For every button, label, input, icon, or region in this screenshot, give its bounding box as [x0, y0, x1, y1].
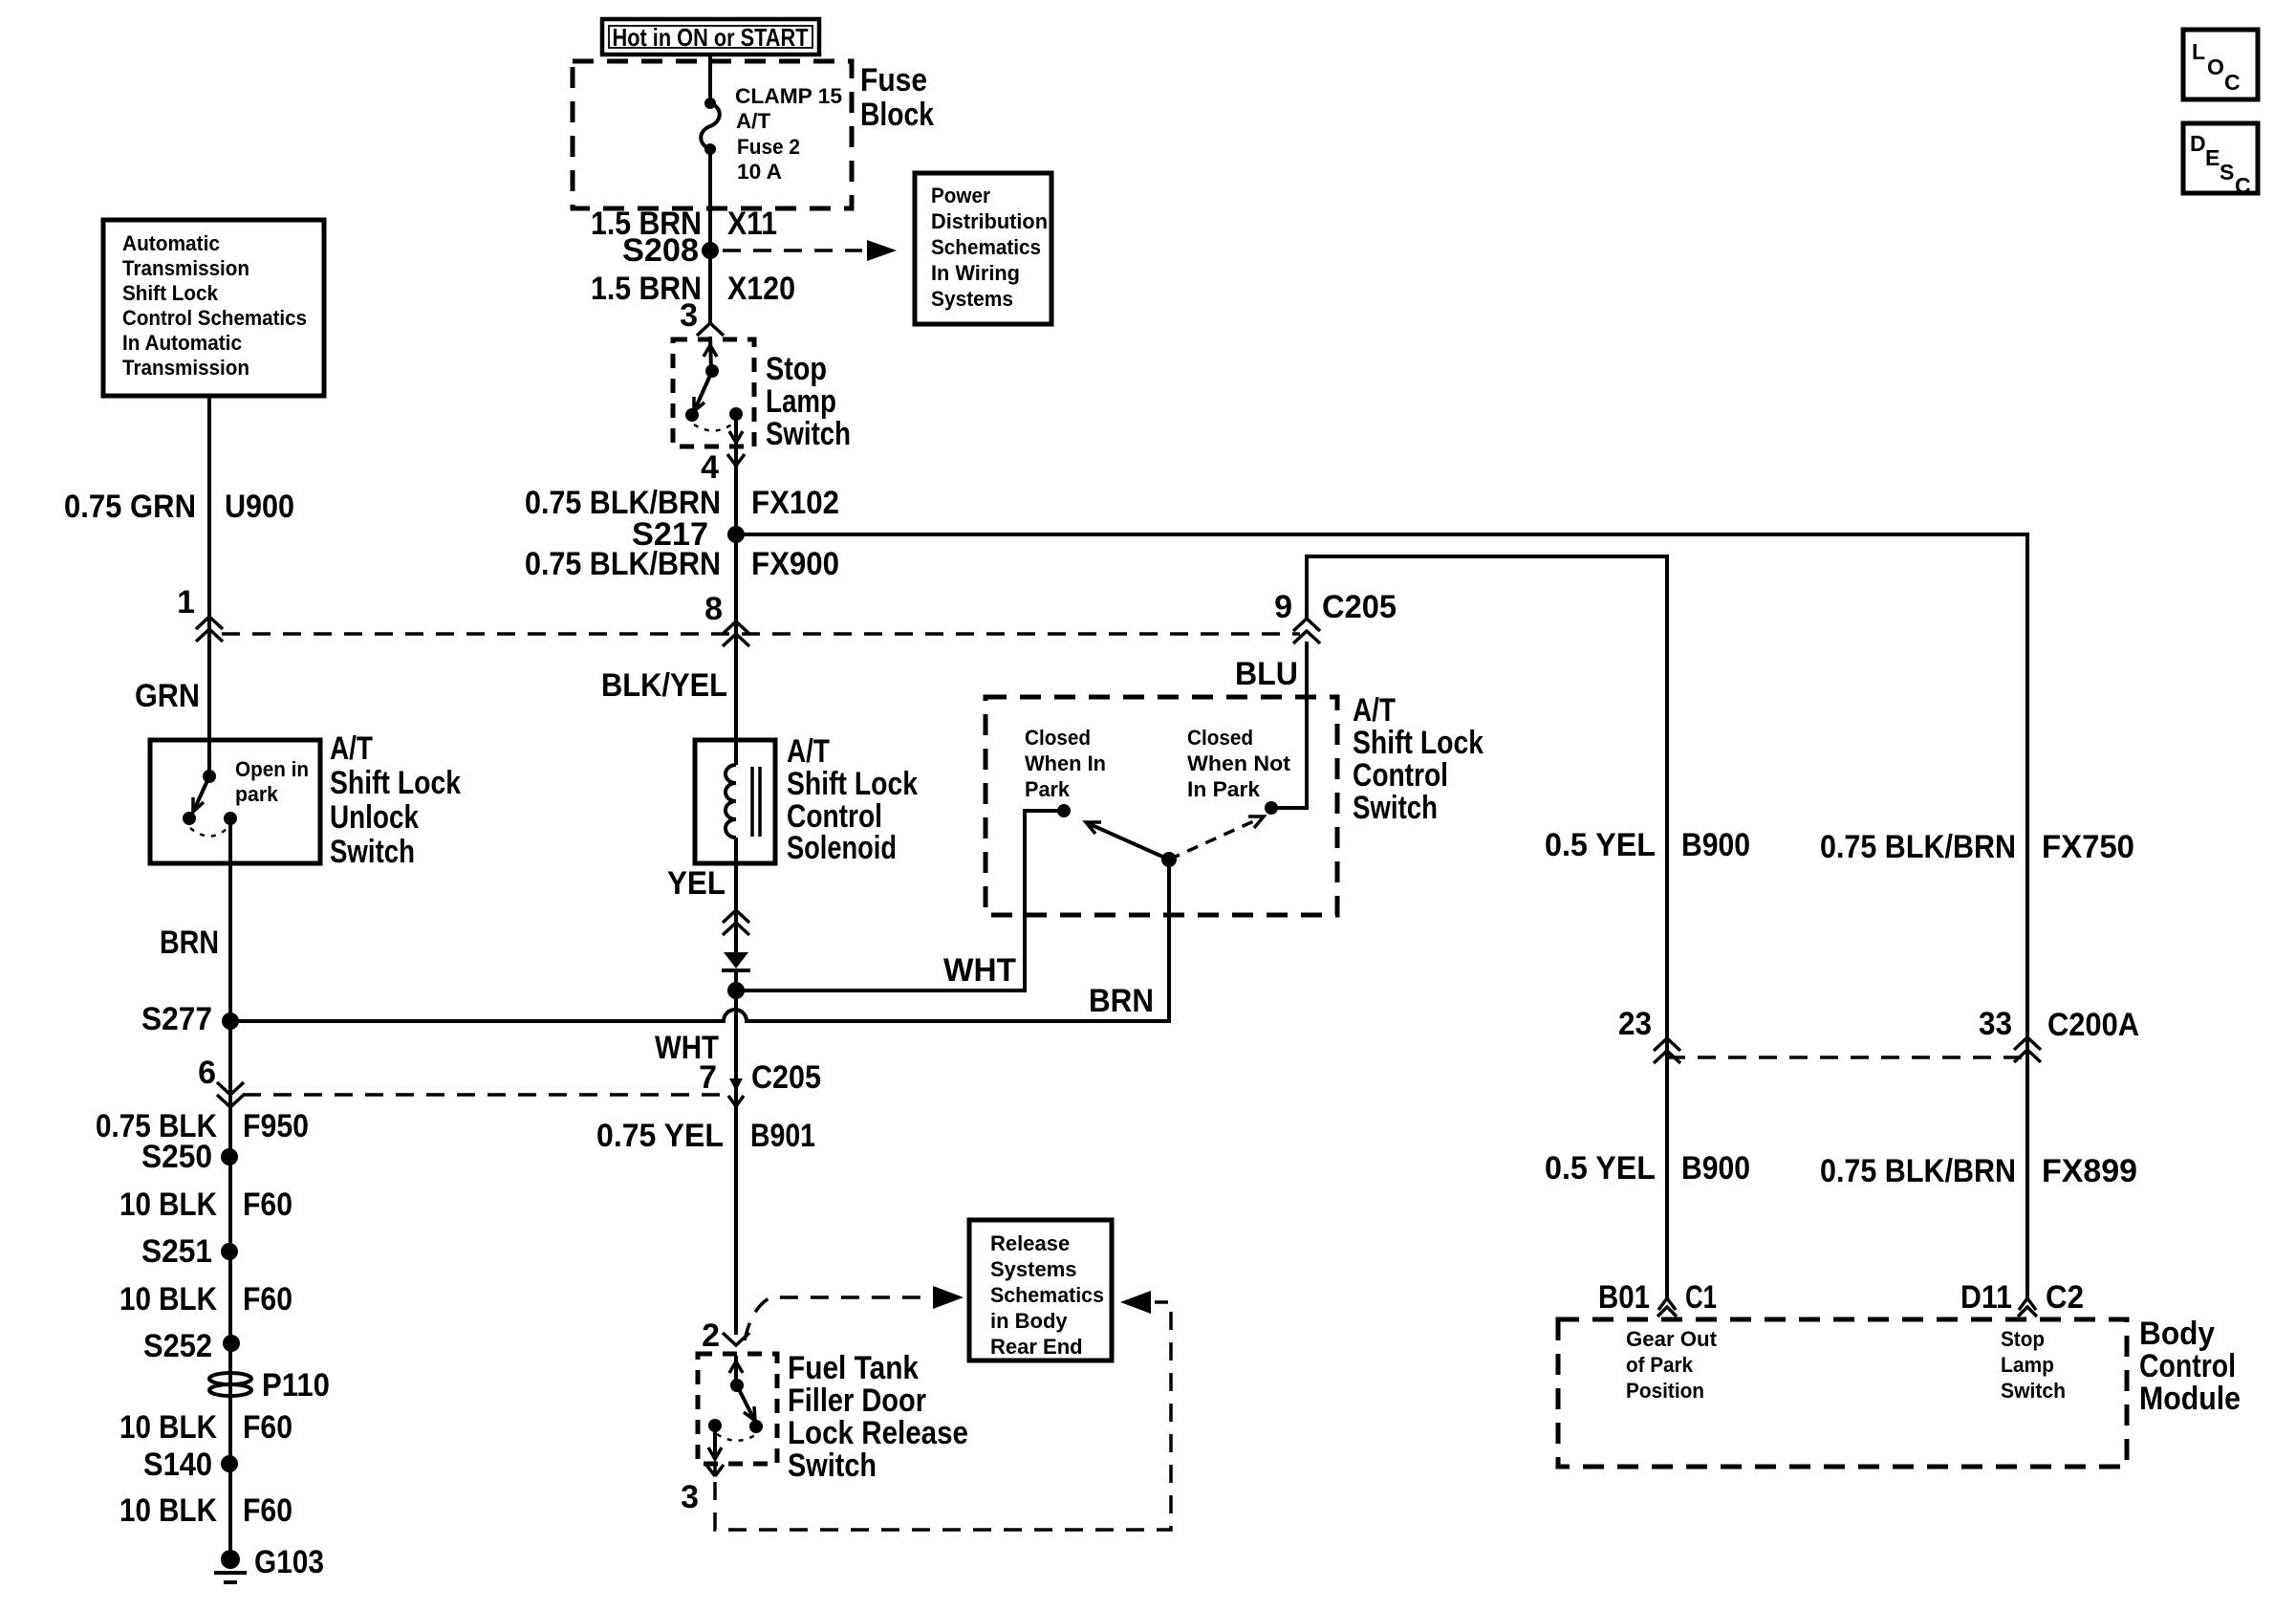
label Stop Lamp Switch (BCM input)	[2001, 1327, 2066, 1403]
svg-text:F60: F60	[243, 1492, 292, 1529]
svg-text:S251: S251	[141, 1233, 212, 1270]
splice S277	[141, 1001, 239, 1037]
svg-text:9: 9	[1274, 589, 1292, 625]
svg-text:C205: C205	[1322, 589, 1397, 625]
connector pin 2 (fuel door switch)	[702, 1317, 749, 1354]
svg-text:Module: Module	[2139, 1381, 2241, 1417]
svg-text:10 BLK: 10 BLK	[119, 1409, 217, 1446]
label Fuel Tank Filler Door Lock Release Switch	[788, 1350, 968, 1484]
label Fuse Block	[860, 62, 934, 133]
diode symbol	[722, 952, 750, 970]
svg-text:Closed: Closed	[1187, 726, 1253, 750]
connector C205 pin 8	[704, 591, 749, 646]
label 0.5 YEL B900 (upper)	[1545, 827, 1750, 863]
connector pin 4	[701, 449, 745, 486]
label A/T Shift Lock Control Switch	[1353, 692, 1484, 826]
label 0.75 BLK/BRN FX750	[1820, 829, 2134, 865]
svg-text:0.5 YEL: 0.5 YEL	[1545, 827, 1656, 863]
svg-text:O: O	[2207, 54, 2224, 79]
BCM connector pin D11 C2	[1960, 1279, 2084, 1317]
reference dashed arrow S208 to power distribution note	[723, 240, 897, 261]
svg-text:Shift Lock: Shift Lock	[330, 765, 461, 801]
svg-text:33: 33	[1979, 1006, 2012, 1042]
svg-text:10 BLK: 10 BLK	[119, 1492, 217, 1529]
connector pin 3 (fuel door switch)	[681, 1464, 724, 1515]
svg-text:10 BLK: 10 BLK	[119, 1186, 217, 1223]
svg-text:Transmission: Transmission	[122, 256, 249, 280]
svg-text:C2: C2	[2046, 1279, 2084, 1316]
svg-text:E: E	[2205, 145, 2220, 170]
svg-text:in Body: in Body	[990, 1309, 1068, 1333]
svg-text:B900: B900	[1681, 827, 1750, 863]
svg-text:BRN: BRN	[1089, 983, 1154, 1019]
fuel tank filler door lock release switch	[698, 1354, 777, 1464]
splice S208	[622, 232, 719, 269]
svg-text:3: 3	[681, 1479, 699, 1515]
svg-text:F60: F60	[243, 1186, 292, 1223]
connector C205 pin 7	[699, 1059, 821, 1106]
svg-text:Systems: Systems	[990, 1257, 1077, 1281]
fuse block dashed box	[573, 61, 852, 208]
grommet P110	[209, 1367, 330, 1404]
svg-text:Gear Out: Gear Out	[1626, 1327, 1718, 1351]
svg-text:C200A: C200A	[2047, 1007, 2139, 1043]
wire from Hot box into fuse	[708, 54, 712, 103]
svg-text:S252: S252	[143, 1328, 212, 1364]
svg-text:In Park: In Park	[1187, 777, 1261, 801]
svg-text:FX102: FX102	[751, 485, 839, 521]
svg-text:X120: X120	[727, 271, 795, 307]
svg-text:Filler Door: Filler Door	[788, 1382, 926, 1419]
label 10 BLK F60 (4)	[119, 1492, 292, 1529]
svg-text:Power: Power	[931, 184, 990, 207]
power feed box: Hot in ON or START	[602, 19, 819, 54]
svg-text:Body: Body	[2139, 1316, 2215, 1352]
svg-text:WHT: WHT	[943, 952, 1016, 989]
connector C205 dashed line (pins 1-8-9)	[222, 632, 1300, 636]
svg-text:GRN: GRN	[135, 678, 200, 714]
wire WHT to control switch	[736, 811, 1059, 991]
wire X120 1.5 BRN	[708, 250, 712, 323]
svg-text:0.75 YEL: 0.75 YEL	[596, 1118, 724, 1154]
note box: Release Systems Schematics in Body Rear End	[969, 1220, 1112, 1361]
label 0.75 GRN U900	[64, 489, 294, 525]
label 1.5 BRN X120	[591, 271, 795, 307]
splice S252	[143, 1328, 240, 1364]
svg-text:Release: Release	[990, 1231, 1070, 1255]
label 10 BLK F60	[119, 1186, 292, 1223]
BCM connector pin B01 C1	[1598, 1279, 1717, 1317]
svg-text:Solenoid: Solenoid	[787, 830, 897, 866]
label 10 BLK F60 (3)	[119, 1409, 292, 1446]
junction of diode WHT	[727, 970, 745, 999]
svg-text:C205: C205	[751, 1059, 821, 1096]
svg-text:D11: D11	[1960, 1279, 2012, 1316]
note box: Automatic Transmission Shift Lock Control Schematics In Automatic Transmission	[103, 220, 324, 396]
svg-text:FX899: FX899	[2042, 1153, 2137, 1189]
svg-text:Switch: Switch	[788, 1448, 877, 1484]
svg-text:In Wiring: In Wiring	[931, 261, 1020, 285]
svg-text:CLAMP 15: CLAMP 15	[735, 84, 842, 108]
svg-text:Switch: Switch	[1353, 790, 1438, 826]
wire FX102/FX900 0.75 BLK/BRN	[734, 446, 738, 740]
wire BRN (unlock switch to S277)	[228, 818, 232, 1021]
svg-text:F950: F950	[243, 1108, 309, 1144]
LOC reference box	[2183, 30, 2258, 99]
svg-text:Fuel Tank: Fuel Tank	[788, 1350, 919, 1386]
svg-text:of Park: of Park	[1626, 1353, 1694, 1377]
svg-text:7: 7	[699, 1059, 717, 1096]
svg-text:Open in: Open in	[235, 757, 309, 781]
svg-text:Lamp: Lamp	[2001, 1353, 2054, 1377]
svg-text:P110: P110	[262, 1367, 330, 1404]
reference dashed arrow to release systems note	[745, 1286, 964, 1340]
svg-text:Switch: Switch	[766, 416, 851, 452]
wire BLU/B900 to BCM (gear out of park)	[1307, 556, 1667, 1298]
wire BRN from S277 to control switch pivot	[230, 860, 1169, 1021]
svg-text:D: D	[2190, 131, 2206, 156]
control switch contacts and arms	[1025, 642, 1307, 867]
svg-text:Transmission: Transmission	[122, 356, 249, 380]
svg-text:Distribution: Distribution	[931, 209, 1048, 233]
svg-text:Block: Block	[860, 97, 934, 133]
svg-text:Fuse 2: Fuse 2	[737, 135, 800, 159]
svg-text:Lamp: Lamp	[766, 383, 836, 420]
svg-text:8: 8	[704, 591, 723, 627]
label Gear Out of Park Position	[1626, 1327, 1718, 1403]
svg-text:B900: B900	[1681, 1150, 1750, 1186]
label 0.75 BLK/BRN FX102	[525, 485, 839, 521]
svg-text:A/T: A/T	[1353, 692, 1396, 729]
svg-text:Closed: Closed	[1025, 726, 1091, 750]
svg-text:Stop: Stop	[2001, 1327, 2045, 1351]
wire X11 1.5 BRN	[708, 149, 712, 250]
inline connector on YEL wire	[723, 910, 749, 935]
svg-text:Unlock: Unlock	[330, 799, 419, 836]
svg-text:2: 2	[702, 1317, 720, 1354]
connector C200A dashed line	[1667, 1056, 2027, 1059]
label Stop Lamp Switch	[766, 351, 851, 452]
svg-text:Control: Control	[2139, 1348, 2236, 1384]
svg-text:Schematics: Schematics	[931, 235, 1041, 259]
label Body Control Module	[2139, 1316, 2241, 1417]
connector pin 3 (stop lamp switch)	[680, 297, 724, 336]
svg-text:1: 1	[177, 584, 195, 620]
svg-text:Shift Lock: Shift Lock	[122, 281, 219, 305]
svg-text:BLK/YEL: BLK/YEL	[601, 667, 727, 704]
svg-text:When Not: When Not	[1187, 751, 1291, 775]
connector C205 pin 9	[1274, 589, 1397, 643]
svg-text:Position: Position	[1626, 1379, 1704, 1403]
svg-text:BRN: BRN	[160, 925, 219, 961]
svg-text:10 A: 10 A	[737, 160, 782, 184]
svg-text:S250: S250	[141, 1139, 212, 1175]
svg-text:Hot in ON or START: Hot in ON or START	[613, 23, 809, 52]
svg-text:Schematics: Schematics	[990, 1283, 1104, 1307]
stop lamp switch	[673, 337, 754, 446]
body control module dashed box	[1558, 1319, 2127, 1467]
svg-text:Stop: Stop	[766, 351, 827, 387]
svg-text:A/T: A/T	[787, 733, 830, 770]
svg-text:6: 6	[198, 1055, 216, 1091]
svg-text:YEL: YEL	[667, 865, 726, 902]
connector pin 6	[198, 1055, 244, 1107]
label 0.75 BLK/BRN FX900	[525, 546, 839, 582]
svg-text:L: L	[2192, 39, 2205, 64]
connector dashed line at pin 6-7	[243, 1093, 725, 1097]
A/T shift lock control switch dashed box	[986, 697, 1337, 915]
svg-text:Control Schematics: Control Schematics	[122, 306, 307, 330]
label A/T Shift Lock Unlock Switch	[330, 730, 461, 870]
svg-text:G103: G103	[254, 1544, 324, 1580]
svg-text:S208: S208	[622, 232, 699, 269]
svg-text:B01: B01	[1598, 1279, 1650, 1316]
svg-text:Automatic: Automatic	[122, 231, 220, 255]
svg-text:Park: Park	[1025, 777, 1071, 801]
A/T shift lock unlock switch	[150, 740, 320, 863]
svg-text:X11: X11	[727, 206, 777, 242]
svg-text:0.5 YEL: 0.5 YEL	[1545, 1150, 1656, 1186]
svg-text:Switch: Switch	[2001, 1379, 2066, 1403]
svg-text:10 BLK: 10 BLK	[119, 1281, 217, 1317]
label A/T Shift Lock Control Solenoid	[787, 733, 918, 866]
reference dashed wire loop to release systems note (right arrow)	[715, 1291, 1171, 1530]
svg-text:0.75 BLK/BRN: 0.75 BLK/BRN	[1820, 1153, 2016, 1189]
label 0.75 BLK F950	[96, 1108, 309, 1144]
splice S217	[632, 516, 745, 553]
svg-text:C1: C1	[1685, 1279, 1717, 1316]
splice S250	[141, 1139, 238, 1175]
svg-text:S277: S277	[141, 1001, 212, 1037]
svg-text:C: C	[2224, 70, 2241, 95]
note box: Power Distribution Schematics In Wiring Systems	[915, 173, 1051, 324]
svg-text:Systems: Systems	[931, 287, 1013, 311]
ground G103	[214, 1544, 324, 1582]
svg-text:0.75 BLK/BRN: 0.75 BLK/BRN	[1820, 829, 2016, 865]
label 0.5 YEL B900 (lower)	[1545, 1150, 1750, 1186]
svg-text:3: 3	[680, 297, 698, 334]
svg-text:In Automatic: In Automatic	[122, 331, 242, 355]
label Closed When In Park	[1025, 726, 1106, 801]
label 0.75 BLK/BRN FX899	[1820, 1153, 2137, 1189]
label 10 BLK F60 (2)	[119, 1281, 292, 1317]
svg-text:When In: When In	[1025, 751, 1106, 775]
svg-text:0.75 BLK/BRN: 0.75 BLK/BRN	[525, 546, 721, 582]
wire F950/F60 ground chain	[228, 1021, 232, 1559]
connector C200A pin 23	[1618, 1006, 1680, 1063]
A/T shift lock control solenoid	[695, 740, 775, 863]
wire WHT down to C205 pin 7	[734, 991, 738, 1335]
label Closed When Not In Park	[1187, 726, 1291, 801]
svg-text:A/T: A/T	[330, 730, 373, 767]
wire YEL below solenoid	[734, 863, 738, 952]
svg-text:Lock Release: Lock Release	[788, 1415, 968, 1451]
svg-text:park: park	[235, 782, 279, 806]
svg-text:B901: B901	[750, 1118, 815, 1154]
wire S217 to right column (0.75 BLK/BRN)	[736, 534, 2027, 1298]
svg-text:23: 23	[1618, 1006, 1652, 1042]
svg-text:F60: F60	[243, 1409, 292, 1446]
fuse F2 CLAMP 15 A/T 10 A	[701, 84, 842, 184]
svg-text:Fuse: Fuse	[860, 62, 927, 98]
svg-text:A/T: A/T	[736, 109, 771, 133]
svg-text:4: 4	[701, 449, 719, 486]
label 0.75 YEL B901	[596, 1118, 815, 1154]
svg-text:FX750: FX750	[2042, 829, 2134, 865]
svg-text:S140: S140	[143, 1447, 212, 1483]
DESC reference box	[2183, 123, 2258, 198]
svg-text:FX900: FX900	[751, 546, 839, 582]
svg-text:F60: F60	[243, 1281, 292, 1317]
svg-text:Shift Lock: Shift Lock	[787, 766, 918, 802]
svg-text:0.75 GRN: 0.75 GRN	[64, 489, 196, 525]
connector C200A pin 33	[1979, 1006, 2139, 1062]
svg-text:S: S	[2220, 160, 2234, 185]
label 1.5 BRN X11	[591, 206, 777, 242]
svg-text:U900: U900	[225, 489, 294, 525]
wire U900 0.75 GRN	[207, 396, 211, 776]
svg-text:Control: Control	[1353, 757, 1448, 794]
svg-text:Switch: Switch	[330, 834, 415, 870]
splice S140	[143, 1447, 238, 1483]
connector C205 pin 1	[177, 584, 223, 642]
svg-text:C: C	[2235, 173, 2251, 198]
svg-text:BLU: BLU	[1235, 656, 1298, 692]
splice S251	[141, 1233, 238, 1270]
svg-text:Shift Lock: Shift Lock	[1353, 725, 1484, 761]
svg-text:Rear End: Rear End	[990, 1335, 1083, 1359]
